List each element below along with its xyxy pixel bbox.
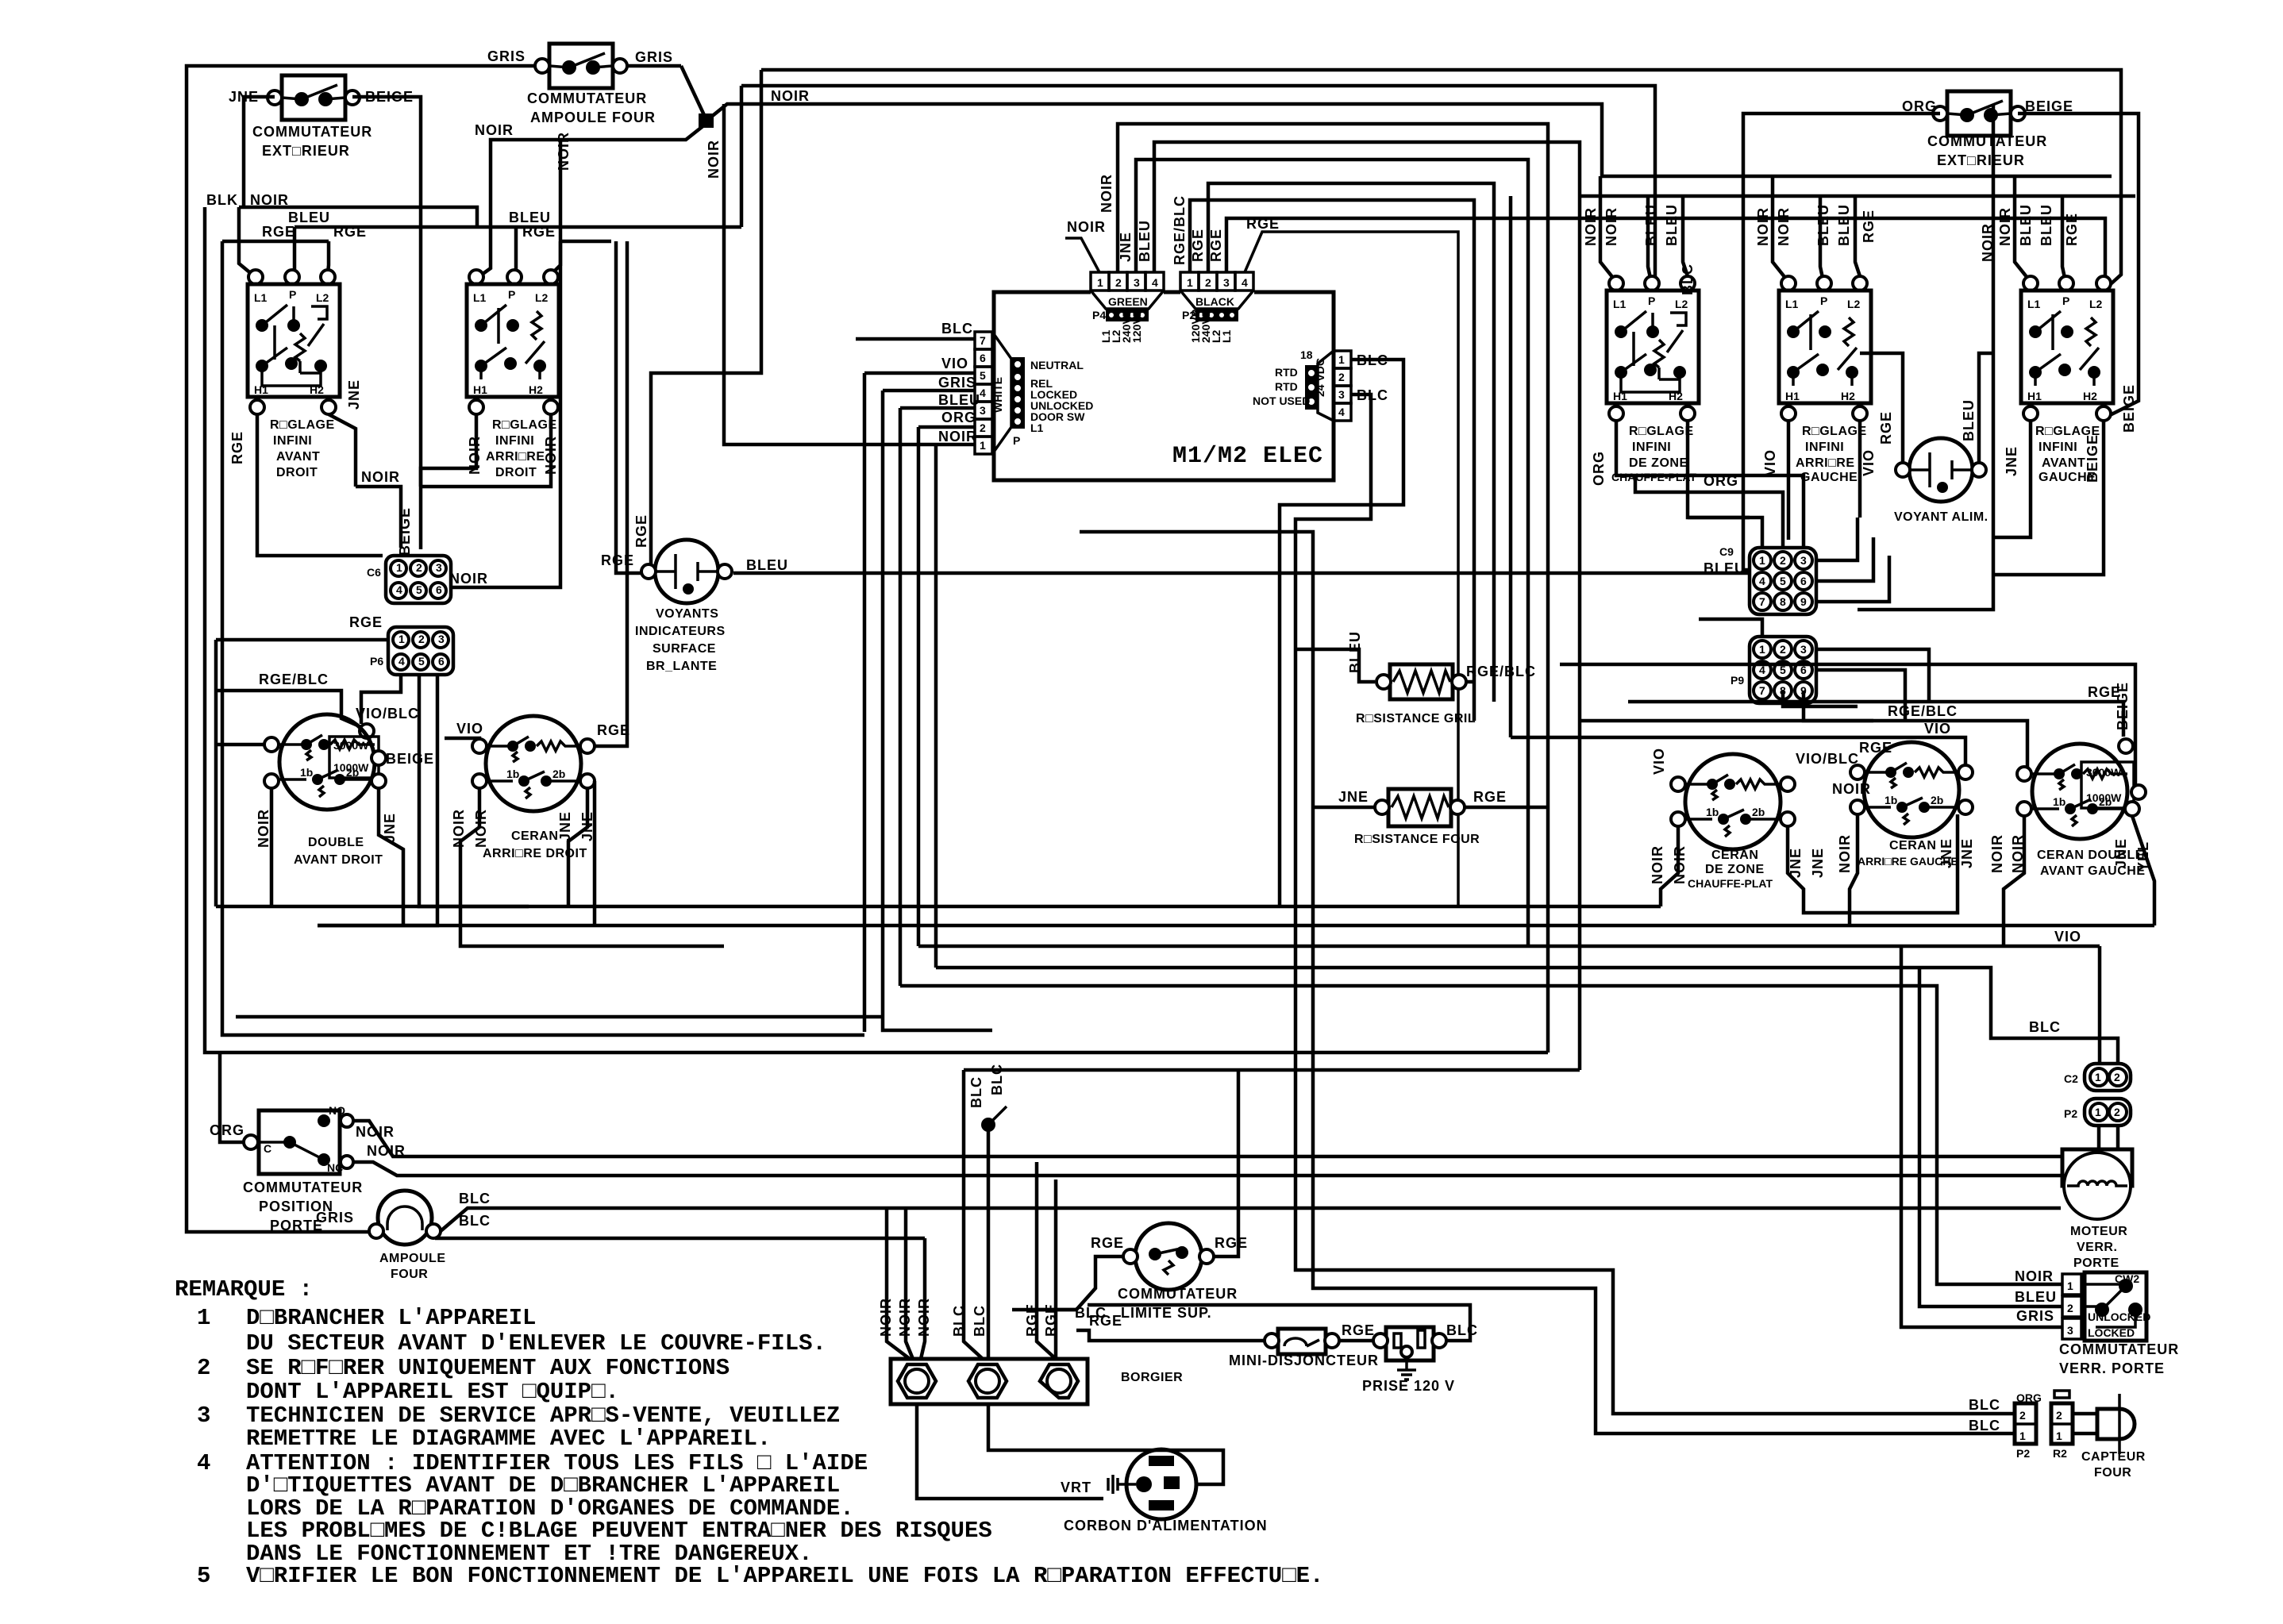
wire NOIR bus 2 — [741, 86, 1655, 289]
svg-text:P6: P6 — [370, 655, 383, 668]
wire sw3 H1 ORG down — [1616, 421, 1700, 475]
svg-text:COMMUTATEUR: COMMUTATEUR — [252, 124, 372, 140]
svg-text:BEIGE: BEIGE — [2115, 682, 2131, 730]
svg-text:VOYANTS: VOYANTS — [656, 607, 718, 621]
svg-text:BLEU: BLEU — [2039, 204, 2054, 246]
svg-text:3000W: 3000W — [333, 739, 369, 752]
wire NOIR bus to C6 — [356, 469, 401, 548]
wire C9 right to frame — [1816, 518, 1889, 602]
svg-text:NOIR: NOIR — [1776, 207, 1792, 246]
svg-text:BLC: BLC — [989, 1064, 1005, 1095]
wire VRT line — [917, 1404, 1103, 1499]
wire RGE/BLC bus — [1580, 703, 2027, 768]
commutateur extérieur (droite) — [1902, 91, 2073, 168]
wire capteur BLC pair — [1969, 1397, 2000, 1434]
svg-text:2: 2 — [2019, 1409, 2026, 1422]
svg-text:RGE: RGE — [1089, 1313, 1122, 1329]
wire bus right yB — [1580, 194, 2135, 198]
wire riser sw2 L2 — [551, 241, 560, 275]
svg-text:NOIR: NOIR — [556, 132, 572, 171]
connecteur P2 capteur — [2015, 1391, 2042, 1460]
svg-text:5: 5 — [980, 369, 986, 382]
wire left border — [187, 66, 537, 1232]
wire RGE bus left — [222, 224, 611, 241]
svg-text:L1: L1 — [1220, 329, 1233, 343]
wire BLEU into verr porte 2 — [1919, 968, 2062, 1307]
svg-text:3000W: 3000W — [2086, 766, 2122, 779]
svg-text:INDICATEURS: INDICATEURS — [635, 625, 726, 638]
svg-text:BLC: BLC — [2029, 1019, 2061, 1035]
wire sw5 H1 JNE down — [1993, 421, 2031, 537]
svg-text:BLEU: BLEU — [1704, 560, 1746, 576]
svg-text:VIO: VIO — [456, 721, 483, 737]
svg-text:WHITE: WHITE — [991, 377, 1004, 413]
wire row A — [529, 905, 1661, 909]
svg-text:2: 2 — [2114, 1071, 2120, 1083]
svg-text:ORG: ORG — [941, 410, 976, 425]
svg-text:BEIGE: BEIGE — [386, 751, 434, 767]
wire NOIR from porte NO — [353, 1121, 2061, 1156]
pin circles sw1 top — [248, 270, 335, 284]
svg-text:UNLOCKED: UNLOCKED — [2088, 1310, 2150, 1323]
connecteur M1/M2 droite — [1253, 348, 1388, 421]
svg-text:NOIR: NOIR — [1583, 207, 1599, 246]
résistance four — [1338, 789, 1507, 846]
svg-text:VIO: VIO — [941, 356, 968, 371]
svg-text:VIO/BLC: VIO/BLC — [356, 706, 419, 722]
svg-text:R□GLAGE: R□GLAGE — [270, 418, 335, 432]
svg-text:NO: NO — [329, 1104, 345, 1117]
svg-text:D□BRANCHER L'APPAREIL: D□BRANCHER L'APPAREIL — [246, 1305, 536, 1331]
svg-text:AVANT: AVANT — [276, 450, 320, 464]
moteur verr. porte — [2062, 1149, 2132, 1270]
svg-text:GRIS: GRIS — [938, 375, 976, 391]
svg-text:VERR. PORTE: VERR. PORTE — [2059, 1360, 2165, 1376]
svg-text:NOIR: NOIR — [771, 88, 810, 104]
node junction NOIR — [699, 114, 714, 128]
svg-text:NOIR: NOIR — [361, 469, 400, 485]
svg-text:ORG: ORG — [1591, 451, 1607, 486]
svg-text:P2: P2 — [2064, 1107, 2077, 1120]
wire RGE from ceran2 — [595, 722, 630, 746]
svg-text:ARRI□RE DROIT: ARRI□RE DROIT — [483, 847, 587, 860]
svg-text:V□RIFIER LE BON FONCTIONNEMENT: V□RIFIER LE BON FONCTIONNEMENT DE L'APPA… — [246, 1563, 1323, 1589]
svg-text:3: 3 — [1223, 276, 1230, 289]
bornier — [891, 1359, 1183, 1404]
élément double avant droit — [256, 714, 434, 867]
wire P6 bottom to double — [361, 673, 401, 724]
céran double avant gauche — [1989, 682, 2151, 878]
svg-text:BLC: BLC — [459, 1213, 491, 1229]
svg-text:NOIR: NOIR — [1997, 207, 2013, 246]
wire RGE disjoncteur to prise — [1339, 1322, 1375, 1341]
svg-text:VIO: VIO — [1651, 748, 1667, 775]
wire sw5 H2 BEIGE down — [1993, 421, 2104, 575]
svg-text:P2: P2 — [2016, 1447, 2030, 1460]
connecteur WHITE (P1) — [975, 332, 1093, 454]
svg-text:BORGIER: BORGIER — [1121, 1371, 1183, 1384]
svg-text:JNE: JNE — [1938, 838, 1954, 868]
wire NOIR corner right — [1858, 104, 1993, 610]
svg-text:VIO: VIO — [2054, 929, 2081, 945]
wire BLC from right connector pin1 — [1280, 360, 1403, 906]
wire risers sw4 — [1755, 176, 1877, 278]
svg-text:JNE: JNE — [2113, 838, 2129, 868]
wire BLEU bus left — [288, 210, 741, 227]
svg-text:1: 1 — [980, 439, 986, 452]
wire riser sw2 P — [514, 227, 516, 275]
svg-text:BLEU: BLEU — [1815, 204, 1831, 246]
svg-text:GREEN: GREEN — [1108, 295, 1148, 308]
wire bus vertical 1096 — [863, 373, 867, 1032]
svg-text:JNE: JNE — [1959, 838, 1975, 868]
svg-text:AMPOULE: AMPOULE — [379, 1252, 446, 1265]
svg-text:C2: C2 — [2064, 1072, 2078, 1085]
svg-text:BLC: BLC — [1969, 1418, 2000, 1434]
svg-text:BLK: BLK — [206, 192, 238, 208]
commutateur verr. porte — [2015, 1268, 2179, 1376]
wire BLC from right connector pin3 — [1295, 394, 2015, 1414]
wire NOIR from junction to sw2 L1 — [475, 122, 705, 276]
prise 120 V — [1362, 1322, 1478, 1394]
ampoule four — [316, 1191, 446, 1281]
svg-text:RGE: RGE — [2064, 213, 2080, 246]
svg-text:COMMUTATEUR: COMMUTATEUR — [1118, 1286, 1238, 1302]
svg-text:1: 1 — [1097, 276, 1103, 289]
svg-text:VIO/BLC: VIO/BLC — [1796, 751, 1859, 767]
svg-text:BLACK: BLACK — [1195, 295, 1234, 308]
wire BLK vertical — [205, 207, 1548, 1053]
svg-text:CAPTEUR: CAPTEUR — [2081, 1450, 2146, 1464]
wire RGE into ceran double — [1628, 684, 2123, 737]
svg-text:NOIR: NOIR — [1099, 174, 1115, 213]
svg-text:P: P — [1013, 434, 1020, 447]
wire risers sw3 — [1583, 176, 1688, 278]
voyants indicateurs surface brûlante — [601, 514, 788, 673]
svg-text:1000W: 1000W — [2086, 791, 2122, 804]
svg-text:ARRI□RE: ARRI□RE — [1796, 456, 1855, 470]
svg-text:CERAN: CERAN — [1889, 839, 1936, 852]
wire GRIS into verr porte 3 — [1901, 946, 2062, 1327]
svg-text:2: 2 — [1205, 276, 1211, 289]
connecteur R2 capteur — [2051, 1391, 2073, 1460]
connecteur P6 — [349, 614, 453, 675]
wire BLC from ampoule up — [435, 1191, 2061, 1238]
svg-text:REMETTRE LE DIAGRAMME AVEC L'A: REMETTRE LE DIAGRAMME AVEC L'APPAREIL. — [246, 1426, 771, 1452]
svg-text:JNE: JNE — [1118, 232, 1134, 262]
céran arrière droit — [451, 716, 595, 860]
svg-text:NOIR: NOIR — [1755, 207, 1771, 246]
svg-text:DOUBLE: DOUBLE — [308, 836, 364, 849]
wire BLACK pin1 riser RGE/BLC — [1172, 195, 1474, 721]
notes remarque — [175, 1276, 1323, 1589]
svg-text:BEIGE: BEIGE — [397, 507, 413, 556]
wire double jne down — [379, 788, 403, 926]
svg-text:NEUTRAL: NEUTRAL — [1030, 359, 1084, 371]
svg-text:M1/M2 ELEC: M1/M2 ELEC — [1172, 443, 1323, 470]
svg-text:NOIR: NOIR — [938, 429, 977, 444]
wire BLEU into WHITE pin3 — [900, 392, 980, 408]
svg-text:AVANT: AVANT — [2042, 456, 2085, 470]
wire ceran2 pins down — [460, 781, 2100, 946]
svg-text:NOIR: NOIR — [1989, 834, 2005, 873]
svg-text:2: 2 — [980, 421, 986, 434]
wire GREEN pin1 NOIR diagonal — [1065, 219, 1106, 272]
wire double left frame — [216, 905, 529, 909]
svg-text:2: 2 — [2114, 1106, 2120, 1118]
svg-text:BLEU: BLEU — [509, 210, 551, 225]
svg-text:INFINI: INFINI — [495, 434, 534, 448]
wire RGE/BLC to P6 row2 — [216, 640, 361, 906]
svg-text:RGE/BLC: RGE/BLC — [1888, 703, 1958, 719]
wire VIO bus — [1511, 721, 1965, 765]
wire P9 risers — [1699, 619, 1929, 721]
wire BLEU bus middle — [733, 571, 1750, 575]
svg-text:BLC: BLC — [941, 321, 973, 337]
svg-text:BLEU: BLEU — [1643, 204, 1659, 246]
svg-text:JNE: JNE — [346, 379, 362, 410]
wire bus vertical 1186 — [934, 444, 938, 968]
capteur four — [2073, 1394, 2146, 1480]
svg-text:5: 5 — [197, 1563, 210, 1589]
svg-text:1: 1 — [1338, 353, 1345, 366]
wire C9 risers top — [1635, 475, 1804, 548]
boîtier M1/M2 ELEC — [994, 292, 1334, 480]
wire row F — [236, 1015, 883, 1019]
svg-text:NOIR: NOIR — [1650, 845, 1665, 884]
commutateur limite sup — [1091, 1223, 1248, 1321]
wire row D — [936, 968, 2118, 1065]
svg-text:BLEU: BLEU — [1961, 399, 1977, 441]
svg-text:18: 18 — [1300, 348, 1313, 361]
svg-text:RGE/BLC: RGE/BLC — [1172, 195, 1188, 265]
wire RGE from four — [1465, 806, 1548, 810]
svg-text:GRIS: GRIS — [316, 1210, 354, 1226]
svg-text:INFINI: INFINI — [1632, 441, 1671, 454]
wire noir into double — [216, 743, 264, 747]
svg-text:JNE: JNE — [557, 811, 573, 841]
wire bus vertical 1140 — [899, 408, 903, 986]
svg-text:RGE: RGE — [349, 614, 383, 630]
résistance gril — [1347, 631, 1536, 725]
svg-text:2: 2 — [2056, 1409, 2062, 1422]
svg-text:COMMUTATEUR: COMMUTATEUR — [1927, 133, 2047, 149]
svg-text:NOIR: NOIR — [449, 571, 488, 587]
svg-text:NOIR: NOIR — [706, 140, 722, 179]
svg-text:RTD: RTD — [1275, 380, 1298, 393]
svg-text:NOIR: NOIR — [2015, 1268, 2054, 1284]
svg-text:PORTE: PORTE — [2073, 1256, 2119, 1270]
svg-text:7: 7 — [980, 334, 986, 347]
wire riser v934 — [740, 86, 744, 227]
wire ORG into position porte — [220, 1053, 244, 1142]
svg-text:SE R□F□RER UNIQUEMENT AUX FONC: SE R□F□RER UNIQUEMENT AUX FONCTIONS — [246, 1355, 730, 1381]
svg-text:RGE: RGE — [1878, 411, 1894, 444]
svg-text:AVANT DROIT: AVANT DROIT — [294, 853, 383, 867]
wire P6 pin3 down — [419, 673, 529, 906]
svg-text:NOIR: NOIR — [916, 1298, 932, 1337]
wire corbon hood — [988, 1404, 1223, 1484]
svg-text:GRIS: GRIS — [635, 49, 673, 65]
svg-text:RGE: RGE — [1091, 1235, 1124, 1251]
wire NOIR bus 1 — [761, 70, 2121, 291]
svg-text:R□GLAGE: R□GLAGE — [1802, 425, 1867, 438]
svg-text:1: 1 — [2095, 1071, 2101, 1083]
svg-text:P4: P4 — [1092, 309, 1106, 321]
svg-text:NOIR: NOIR — [1067, 219, 1106, 235]
wire riser sw1 L1 — [239, 207, 252, 275]
svg-text:BLEU: BLEU — [288, 210, 330, 225]
svg-text:AMPOULE FOUR: AMPOULE FOUR — [530, 110, 656, 125]
svg-text:GAUCHE: GAUCHE — [1800, 471, 1858, 484]
wire NOIR right of C6 — [449, 132, 572, 587]
svg-text:BLC: BLC — [1680, 264, 1696, 295]
wire VIO vertical to C2 — [2098, 946, 2102, 1065]
commutateur extérieur (gauche) — [229, 75, 414, 159]
svg-text:RGE: RGE — [1861, 210, 1877, 243]
wire row B — [318, 924, 2154, 928]
svg-text:DROIT: DROIT — [495, 466, 537, 479]
svg-text:SURFACE: SURFACE — [653, 642, 716, 656]
wire horizontal 1348 BLC — [964, 1068, 1580, 1072]
wire double bottom pins down — [270, 788, 274, 906]
connecteur P2 moteur — [2064, 1099, 2131, 1126]
svg-text:RTD: RTD — [1275, 366, 1298, 379]
wire BEIGE from right switch — [2018, 114, 2139, 416]
svg-text:L1: L1 — [1030, 421, 1044, 434]
wire BLC label bornier right — [1012, 1305, 1107, 1321]
wire BLACK pin3 riser RGE — [1208, 218, 2105, 286]
svg-text:RGE: RGE — [229, 431, 245, 464]
wire BLEU from voyant alim — [1979, 353, 1993, 463]
wire sw3 H2 down — [1688, 421, 1750, 518]
wire GREEN pin2 riser NOIR — [1099, 124, 1548, 1053]
svg-text:BEIGE: BEIGE — [2085, 434, 2100, 483]
connecteur GREEN — [1091, 272, 1164, 343]
svg-text:COMMUTATEUR: COMMUTATEUR — [2059, 1341, 2179, 1357]
svg-text:JNE: JNE — [2004, 446, 2019, 476]
svg-text:2: 2 — [2067, 1302, 2073, 1314]
wire ORG switch left vertical 2196 — [1743, 114, 1940, 570]
svg-text:1: 1 — [197, 1305, 210, 1331]
svg-text:GRIS: GRIS — [487, 48, 526, 64]
wire NOIR second vertical — [222, 241, 864, 1035]
svg-text:RGE/BLC: RGE/BLC — [1466, 664, 1536, 679]
wire GREEN pin4 riser BLEU — [1137, 142, 1580, 1070]
svg-text:C: C — [264, 1142, 271, 1155]
commutateur ampoule four — [487, 44, 673, 125]
wire NOIR bus 3 to right exterior switch — [710, 104, 1602, 176]
svg-text:COMMUTATEUR: COMMUTATEUR — [243, 1180, 363, 1195]
wire RGE pair to bornier — [1024, 1162, 1059, 1359]
svg-text:6: 6 — [980, 352, 986, 364]
wire NOIR long vertical — [724, 104, 975, 444]
connecteur C6 — [367, 507, 451, 603]
wire cerans bottom frame — [1661, 814, 2154, 946]
réglage infini avant droit (sw1) — [229, 284, 362, 479]
svg-text:4: 4 — [1152, 276, 1158, 289]
réglage infini arrière gauche (sw4) — [1762, 276, 1877, 484]
wire C2-P2 to moteur — [2099, 1126, 2118, 1149]
svg-text:JNE: JNE — [1338, 789, 1369, 805]
svg-text:DE ZONE: DE ZONE — [1705, 863, 1765, 876]
wire RGE into voyant alim — [1860, 353, 1903, 463]
svg-text:BLC: BLC — [968, 1076, 984, 1108]
wire RGE into limite sup — [1029, 1256, 1123, 1310]
svg-text:1: 1 — [2019, 1430, 2026, 1442]
svg-text:RGE: RGE — [333, 224, 367, 240]
svg-text:24 VDC: 24 VDC — [1314, 358, 1326, 397]
svg-text:EXT□RIEUR: EXT□RIEUR — [1937, 152, 2025, 168]
svg-text:DONT L'APPAREIL EST □QUIP□.: DONT L'APPAREIL EST □QUIP□. — [246, 1379, 619, 1405]
svg-text:INFINI: INFINI — [273, 434, 312, 448]
pin circles sw2 top — [469, 270, 558, 284]
svg-text:RGE/BLC: RGE/BLC — [259, 672, 329, 687]
svg-text:RGE: RGE — [1246, 216, 1280, 232]
wire GRIS into WHITE pin4 — [883, 375, 976, 391]
svg-text:INFINI: INFINI — [2039, 441, 2077, 454]
wire BLEU to gril — [1295, 649, 1375, 682]
svg-text:VIO: VIO — [1861, 449, 1877, 476]
svg-text:BEIGE: BEIGE — [2121, 384, 2137, 433]
svg-text:3: 3 — [1338, 388, 1345, 401]
wire verticals right bus stack — [1509, 196, 1513, 737]
svg-text:BLEU: BLEU — [1137, 220, 1153, 262]
svg-text:INFINI: INFINI — [1805, 441, 1844, 454]
svg-text:1: 1 — [2095, 1106, 2101, 1118]
wire NOIR bus left — [239, 207, 477, 227]
wire bus vertical 1157 — [917, 427, 921, 946]
svg-text:NOIR: NOIR — [878, 1298, 894, 1337]
wire riser v959 to RGE voyants — [651, 70, 761, 567]
wire ORG into WHITE pin2 — [918, 410, 976, 427]
svg-text:ORG: ORG — [2016, 1391, 2042, 1404]
svg-text:RGE: RGE — [522, 224, 556, 240]
svg-text:2: 2 — [1115, 276, 1122, 289]
svg-text:BLEU: BLEU — [746, 557, 788, 573]
svg-text:BLC: BLC — [1446, 1322, 1478, 1338]
svg-text:R□SISTANCE GRIL: R□SISTANCE GRIL — [1356, 712, 1476, 725]
svg-text:3: 3 — [197, 1403, 210, 1429]
svg-text:NOIR: NOIR — [897, 1298, 913, 1337]
wire row E — [900, 986, 2062, 1284]
svg-text:CW2: CW2 — [2115, 1272, 2139, 1285]
wire RGE to P6 — [216, 638, 388, 642]
svg-text:NOT USED: NOT USED — [1253, 394, 1310, 407]
wire JNE from ext switch — [244, 97, 275, 207]
svg-text:4: 4 — [1242, 276, 1248, 289]
svg-text:RGE: RGE — [1208, 229, 1224, 262]
wire BLACK pin2 riser RGE — [1190, 183, 1494, 702]
svg-text:FOUR: FOUR — [391, 1268, 428, 1281]
céran arrière gauche — [1832, 740, 1975, 873]
svg-text:DU SECTEUR AVANT D'ENLEVER LE: DU SECTEUR AVANT D'ENLEVER LE COUVRE-FIL… — [246, 1330, 826, 1357]
wire VIO/BLC label — [356, 706, 419, 738]
svg-text:EXT□RIEUR: EXT□RIEUR — [262, 143, 350, 159]
svg-text:BR_LANTE: BR_LANTE — [646, 660, 717, 673]
svg-text:2: 2 — [197, 1355, 210, 1381]
svg-text:1000W: 1000W — [333, 761, 369, 774]
cadre cerans droite — [1560, 664, 2135, 794]
svg-text:JNE: JNE — [1810, 848, 1826, 878]
svg-text:RGE: RGE — [633, 514, 649, 548]
svg-text:LIMITE SUP.: LIMITE SUP. — [1121, 1305, 1212, 1321]
svg-text:R□GLAGE: R□GLAGE — [1629, 425, 1694, 438]
wire BLC left into WHITE pin7 — [856, 321, 975, 339]
svg-text:CORBON D'ALIMENTATION: CORBON D'ALIMENTATION — [1064, 1518, 1268, 1534]
svg-text:VOYANT ALIM.: VOYANT ALIM. — [1894, 510, 1988, 524]
svg-text:NOIR: NOIR — [1837, 834, 1853, 873]
